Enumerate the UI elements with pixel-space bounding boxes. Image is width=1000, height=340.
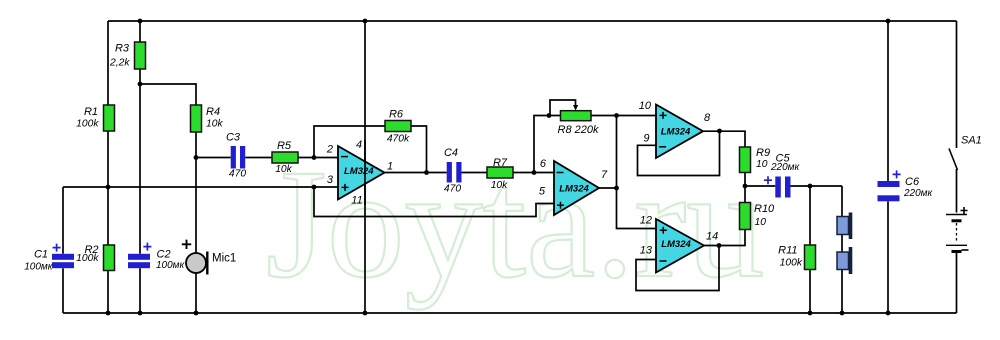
plus mark C5 (764, 176, 772, 184)
battery plus mark (961, 207, 968, 214)
svg-text:C3: C3 (226, 132, 241, 144)
U1.2 minus (557, 172, 564, 174)
op-amp U1.2 (554, 161, 599, 215)
plus mark C2 (143, 243, 151, 251)
svg-text:1: 1 (387, 161, 393, 173)
speaker BF1 (837, 213, 852, 240)
plus mark C1 (53, 244, 61, 252)
resistor R2 (104, 245, 115, 271)
svg-text:470k: 470k (387, 134, 410, 145)
U1.2 plus (557, 202, 564, 209)
label C1 (24, 249, 54, 273)
wire op3 feedback (638, 131, 720, 176)
svg-text:R5: R5 (277, 140, 292, 152)
label C3 (226, 132, 246, 180)
svg-text:100мк: 100мк (156, 260, 186, 271)
resistor R6 (385, 121, 411, 132)
resistor R9 (740, 147, 751, 173)
resistor R5 (272, 152, 298, 163)
wire SA1 battery branch (956, 21, 958, 313)
wire power line pins 4-11 (364, 21, 366, 313)
capacitor C1 (52, 254, 74, 268)
svg-text:C4: C4 (444, 147, 458, 159)
plus mark Mic1 (182, 240, 191, 249)
label R5 (275, 140, 292, 175)
svg-text:10k: 10k (275, 164, 292, 175)
plus mark C6 (893, 170, 901, 178)
U1.4 plus (660, 227, 667, 234)
label C4 (444, 147, 461, 195)
wire R11 branch (809, 186, 811, 313)
svg-text:100мк: 100мк (24, 262, 54, 273)
wire bottom ground rail (63, 312, 957, 314)
svg-text:R7: R7 (493, 157, 508, 169)
svg-text:R6: R6 (389, 109, 404, 121)
resistor R3 (135, 42, 146, 69)
label C6 (903, 176, 934, 199)
svg-text:100k: 100k (76, 253, 99, 264)
svg-text:10: 10 (756, 159, 768, 170)
wire output1 to C4 (385, 172, 447, 174)
wire pin3 node to pin5 (314, 187, 554, 217)
wire feedback R6 loop (314, 126, 427, 173)
label R11 (778, 245, 803, 269)
svg-text:10: 10 (755, 217, 767, 228)
wire R3 bottom to R4 top (140, 84, 196, 105)
wire R9 to R10 node (744, 173, 746, 203)
svg-text:R10: R10 (754, 203, 775, 215)
U1.4 minus (660, 260, 667, 262)
svg-text:8: 8 (704, 112, 711, 124)
resistor R4 (191, 105, 202, 132)
svg-text:12: 12 (640, 215, 652, 227)
capacitor C6 (878, 181, 900, 201)
U1.3 minus (659, 146, 666, 148)
wire output3 to R9 (703, 131, 745, 147)
U1.1 minus (341, 156, 348, 158)
svg-text:11: 11 (351, 195, 362, 207)
battery minus mark (962, 249, 969, 251)
label R2 (76, 244, 99, 264)
svg-text:9: 9 (643, 133, 649, 145)
svg-text:C2: C2 (157, 249, 171, 261)
wire mic branch (195, 158, 197, 314)
svg-text:6: 6 (540, 158, 547, 170)
label R9 (756, 147, 770, 170)
capacitor C4 (447, 162, 462, 183)
speaker BF2 (837, 247, 852, 274)
svg-text:LM324: LM324 (661, 127, 691, 138)
svg-text:7: 7 (601, 169, 608, 181)
svg-text:220мк: 220мк (903, 188, 934, 199)
svg-text:100k: 100k (76, 119, 99, 130)
wire R8 wiper (550, 100, 576, 116)
svg-text:LM324: LM324 (661, 239, 691, 250)
wire R3 bottom to C2 (139, 84, 141, 313)
wire C4 to R7 (462, 172, 488, 174)
svg-text:13: 13 (640, 245, 653, 257)
wire speaker branch (841, 186, 843, 313)
battery GB1 (946, 215, 967, 252)
resistor R7 (487, 167, 513, 178)
svg-text:R9: R9 (756, 147, 770, 159)
svg-text:10k: 10k (491, 180, 508, 191)
wire C6 branch (887, 21, 889, 313)
svg-text:C1: C1 (34, 249, 48, 261)
resistor R11 (805, 245, 816, 270)
svg-text:220мк: 220мк (770, 162, 801, 173)
wire top +V rail (108, 20, 957, 22)
op-amp input signs (341, 112, 667, 261)
switch SA1 blade (949, 149, 958, 171)
label R3 (109, 43, 130, 69)
svg-text:LM324: LM324 (559, 184, 589, 195)
svg-text:5: 5 (539, 186, 546, 198)
svg-text:Mic1: Mic1 (212, 253, 236, 265)
svg-text:R8 220k: R8 220k (558, 124, 599, 136)
watermark Joyta.ru (266, 146, 764, 302)
op-amp U1.4 (656, 219, 704, 273)
svg-text:2: 2 (326, 143, 333, 155)
label C2 (156, 249, 186, 272)
wire R8 branch (534, 116, 656, 173)
op-amp U1.1 (338, 146, 385, 200)
svg-text:470: 470 (229, 169, 246, 180)
svg-text:R3: R3 (115, 43, 130, 55)
wire R3 branch (139, 21, 141, 84)
label R4 (206, 106, 223, 130)
wire R7 to pin 6 (513, 172, 554, 174)
wire output2 node (599, 116, 656, 229)
wire reference line to pin 3 (63, 186, 338, 188)
label R1 (76, 106, 99, 130)
svg-text:10: 10 (639, 100, 652, 112)
capacitor C5 (775, 177, 790, 198)
capacitor C3 (231, 146, 246, 169)
svg-text:3: 3 (327, 174, 334, 186)
wire op4 feedback (636, 246, 719, 291)
potentiometer R8 (561, 105, 592, 121)
capacitor C2 (128, 254, 150, 268)
wire R10 bottom to output4 (704, 230, 745, 246)
svg-text:4: 4 (356, 139, 362, 151)
svg-text:R1: R1 (84, 106, 98, 118)
label R6 (387, 109, 410, 145)
power line over op-amp U1.1 (364, 140, 366, 205)
wire C3 to R5 to pin 2 (196, 157, 338, 159)
wire C5 node (745, 185, 842, 187)
U1.3 plus (660, 112, 667, 119)
label C5 (770, 153, 801, 174)
svg-text:C6: C6 (905, 176, 920, 188)
svg-text:R11: R11 (778, 245, 797, 257)
wire left branch R1-R2 (107, 21, 109, 313)
svg-text:10k: 10k (206, 119, 223, 130)
svg-text:SA1: SA1 (961, 135, 982, 147)
resistor R1 (104, 105, 115, 131)
svg-text:14: 14 (706, 231, 718, 243)
microphone Mic1 (186, 252, 207, 275)
svg-text:100k: 100k (780, 258, 803, 269)
label R10 (754, 203, 775, 228)
op-amp U1.3 (656, 105, 703, 159)
svg-text:R4: R4 (206, 106, 220, 118)
svg-text:470: 470 (444, 184, 461, 195)
resistor R10 (740, 203, 751, 230)
svg-text:LM324: LM324 (344, 166, 374, 177)
svg-text:2,2k: 2,2k (109, 58, 130, 69)
wire C1 branch (62, 187, 64, 313)
U1.1 plus (342, 184, 349, 191)
wire R4 bottom to C3 node (195, 132, 197, 158)
label R7 (491, 157, 508, 191)
